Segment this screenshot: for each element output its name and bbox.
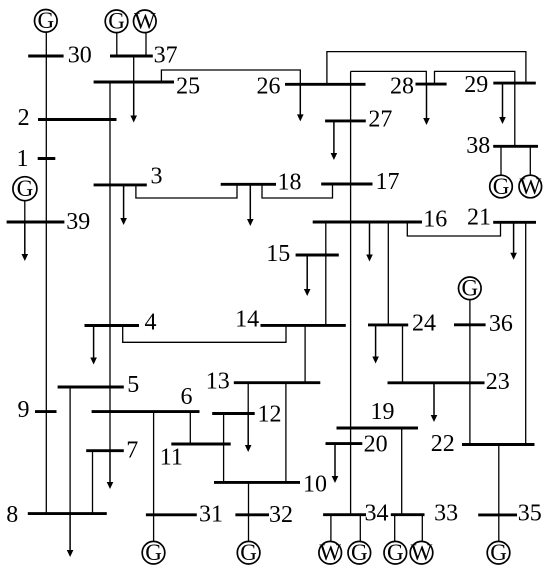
svg-text:13: 13 xyxy=(206,369,230,395)
wire 6-31-G xyxy=(153,412,155,542)
wire G36-36-23-22 xyxy=(469,300,471,445)
svg-text:W: W xyxy=(411,540,433,565)
wire 4-14 xyxy=(123,325,286,342)
svg-text:19: 19 xyxy=(371,399,395,425)
svg-text:G: G xyxy=(351,540,368,565)
svg-text:G: G xyxy=(37,8,54,33)
svg-text:1: 1 xyxy=(17,146,29,172)
svg-text:35: 35 xyxy=(518,500,542,526)
wire 22-35-G xyxy=(498,445,500,542)
svg-text:G: G xyxy=(461,276,478,301)
wire 26-29 xyxy=(327,52,526,85)
svg-text:11: 11 xyxy=(160,445,183,471)
wire 25-26 xyxy=(161,70,300,84)
bus 7 xyxy=(86,449,124,452)
svg-text:7: 7 xyxy=(126,438,138,464)
bus 2 xyxy=(38,118,117,121)
svg-text:25: 25 xyxy=(176,74,200,100)
svg-text:32: 32 xyxy=(269,502,293,528)
wire 28-29-38 xyxy=(435,71,515,146)
svg-text:31: 31 xyxy=(199,502,223,528)
svg-text:3: 3 xyxy=(151,164,163,190)
svg-text:28: 28 xyxy=(390,73,414,99)
wire 3-18 xyxy=(136,184,237,198)
svg-text:9: 9 xyxy=(18,397,30,423)
wire 26-28 xyxy=(351,71,427,84)
wire 12-11-10 xyxy=(223,414,225,483)
wire 19-33 xyxy=(401,428,403,515)
svg-text:22: 22 xyxy=(431,431,455,457)
load arrow bus 26 xyxy=(297,84,304,121)
wire 5-8 xyxy=(69,387,71,514)
wind W bus 33 xyxy=(410,540,433,565)
wire 18-17 xyxy=(262,184,333,198)
svg-text:5: 5 xyxy=(127,372,139,398)
bus 31 xyxy=(146,513,197,516)
wire lead G39 xyxy=(24,201,26,222)
svg-text:33: 33 xyxy=(434,501,458,527)
svg-text:15: 15 xyxy=(266,241,290,267)
load arrow bus 20 xyxy=(332,444,339,483)
bus 38 xyxy=(493,145,538,148)
bus 36 xyxy=(454,323,486,326)
wind W bus 34 xyxy=(319,540,342,565)
load arrow bus 21 xyxy=(510,222,517,259)
wire mid trunk 26-27-17-16-19-20-34 xyxy=(350,71,352,514)
wind W bus 38 xyxy=(519,174,542,199)
wire 10-32-G xyxy=(248,482,250,541)
bus 39 xyxy=(7,221,65,224)
bus 24 xyxy=(368,323,408,326)
wire 16-21 xyxy=(407,222,500,236)
generator G bus 32 xyxy=(237,540,260,565)
generator G bus 34 xyxy=(348,540,371,565)
svg-text:12: 12 xyxy=(258,402,282,428)
bus 23 xyxy=(388,381,485,384)
wind W bus 37 xyxy=(134,9,157,34)
svg-text:34: 34 xyxy=(365,501,389,527)
generator G bus 30 xyxy=(35,8,58,33)
wire lead W37 xyxy=(145,33,147,56)
load arrow bus 28 xyxy=(423,84,430,125)
svg-text:29: 29 xyxy=(464,72,488,98)
bus 16 xyxy=(313,221,422,224)
svg-text:W: W xyxy=(519,174,541,199)
bus 37 xyxy=(110,55,153,58)
wire lead G34 xyxy=(359,515,361,542)
wire lead W33 xyxy=(421,515,423,542)
wire lead W38 xyxy=(529,146,531,175)
generator G bus 31 xyxy=(142,540,165,565)
svg-text:20: 20 xyxy=(364,432,388,458)
bus 33 xyxy=(391,513,425,516)
bus 6 xyxy=(92,410,200,413)
bus 29 xyxy=(493,82,536,85)
svg-text:18: 18 xyxy=(278,170,302,196)
bus 12 xyxy=(212,412,255,415)
svg-text:17: 17 xyxy=(376,169,400,195)
bus 22 xyxy=(462,443,535,446)
bus 11 xyxy=(171,443,230,446)
bus 18 xyxy=(221,183,276,186)
bus 25 xyxy=(94,81,174,84)
svg-text:36: 36 xyxy=(489,311,513,337)
load arrow bus 8 xyxy=(67,514,74,557)
load arrow bus 15 xyxy=(304,255,311,296)
bus 20 xyxy=(326,442,363,445)
wire 16-24 xyxy=(387,222,389,325)
bus 1 xyxy=(38,157,56,160)
svg-text:W: W xyxy=(319,540,341,565)
bus 26 xyxy=(285,83,366,86)
bus 32 xyxy=(235,513,269,516)
wire trunk 25-2-3-4-5-6-7 xyxy=(109,82,111,451)
generator G bus 37 xyxy=(105,9,128,34)
svg-text:38: 38 xyxy=(466,133,490,159)
load arrow bus 3 xyxy=(120,185,127,225)
svg-text:2: 2 xyxy=(18,105,30,131)
wire lead G33 xyxy=(394,515,396,542)
load arrow bus 25 xyxy=(130,82,137,123)
generator G bus 36 xyxy=(459,276,482,301)
bus 28 xyxy=(416,83,447,86)
wire lead G38 xyxy=(500,146,502,175)
svg-text:26: 26 xyxy=(257,74,281,100)
wire 6-11 xyxy=(189,412,191,444)
svg-text:G: G xyxy=(387,540,404,565)
svg-text:G: G xyxy=(108,9,125,34)
wire 37-25 xyxy=(133,56,135,82)
svg-text:27: 27 xyxy=(368,106,392,132)
bus 13 xyxy=(234,381,320,384)
bus 4 xyxy=(85,324,140,327)
svg-text:6: 6 xyxy=(181,384,193,410)
load arrow bus 16 xyxy=(366,222,373,261)
load arrow bus 4 xyxy=(90,326,97,365)
bus 27 xyxy=(325,119,366,122)
svg-text:23: 23 xyxy=(486,369,510,395)
bus 14 xyxy=(261,324,346,327)
svg-text:14: 14 xyxy=(235,307,259,333)
wire 21-22 xyxy=(525,222,527,444)
bus 35 xyxy=(478,513,517,516)
load arrow bus 24 xyxy=(372,325,379,364)
svg-text:4: 4 xyxy=(145,310,157,336)
bus 5 xyxy=(58,386,124,389)
bus 3 xyxy=(94,183,147,186)
wire 7-8 xyxy=(92,451,94,514)
load arrow bus 23 xyxy=(431,383,438,422)
svg-text:G: G xyxy=(240,540,257,565)
wire 13-10 xyxy=(285,383,287,483)
generator G bus 38 xyxy=(490,174,513,199)
bus 34 xyxy=(323,513,366,516)
svg-text:G: G xyxy=(493,174,510,199)
bus 30 xyxy=(28,55,63,58)
svg-text:G: G xyxy=(145,540,162,565)
bus 17 xyxy=(321,183,372,186)
bus 15 xyxy=(296,254,339,257)
svg-text:G: G xyxy=(490,540,507,565)
bus 8 xyxy=(28,512,107,515)
wire left trunk 30-2-1-39-9-8 xyxy=(45,33,47,514)
wire 16-15-14 xyxy=(325,222,327,325)
load arrow bus 29 xyxy=(499,83,506,124)
load arrow bus 7 xyxy=(107,451,114,489)
generator G bus 33 xyxy=(384,540,407,565)
wire 13-14 xyxy=(304,325,306,382)
svg-text:37: 37 xyxy=(154,43,178,69)
load arrow bus 12 xyxy=(245,414,252,453)
svg-text:30: 30 xyxy=(68,43,92,69)
bus 10 xyxy=(214,481,300,484)
wire lead G37 xyxy=(116,33,118,56)
svg-text:8: 8 xyxy=(6,502,18,528)
wire 13-12 xyxy=(247,383,249,414)
generator G bus 35 xyxy=(487,540,510,565)
svg-text:39: 39 xyxy=(66,209,90,235)
load arrow bus 27 xyxy=(331,121,338,160)
wire lead W34 xyxy=(330,515,332,542)
generator G bus 39 xyxy=(13,176,37,201)
load arrow bus 39 xyxy=(22,222,29,261)
svg-text:W: W xyxy=(134,9,156,34)
svg-text:24: 24 xyxy=(412,311,436,337)
svg-text:16: 16 xyxy=(423,206,447,232)
bus 21 xyxy=(493,221,536,224)
svg-text:21: 21 xyxy=(467,205,491,231)
bus 19 xyxy=(337,427,419,430)
svg-text:10: 10 xyxy=(303,472,327,498)
wire 24-23 xyxy=(402,325,404,383)
bus 9 xyxy=(35,410,57,413)
svg-text:G: G xyxy=(17,176,34,201)
load arrow bus 18 xyxy=(247,184,254,226)
